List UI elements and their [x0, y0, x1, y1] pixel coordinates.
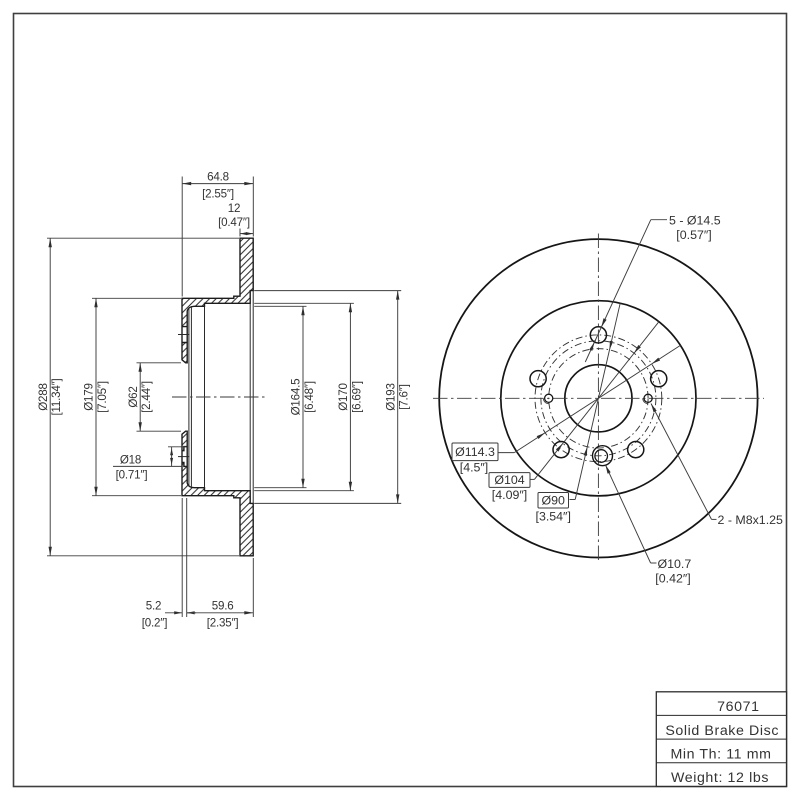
dimension Ø170 [6.69"] drum diameter: extension lines — [254, 302, 354, 304]
front view: hat outline circle Ø179 — [501, 301, 696, 496]
dimension Ø193 [7.6"] groove diameter: extension lines — [254, 290, 401, 292]
leader line: &#216;90 circle — [575, 303, 620, 499]
section view: hatched upper half (friction ring + hat wall + flange) — [182, 238, 253, 363]
section view: hatched lower half (friction ring + hat wall + flange with Ø18 hole notch) — [182, 431, 253, 556]
front view: horizontal centerline — [433, 397, 764, 399]
svg-text:Ø114.3: Ø114.3 — [455, 445, 495, 459]
dimension Ø193: dimension line with arrows — [397, 291, 399, 504]
svg-text:[3.54″]: [3.54″] — [536, 510, 571, 524]
dimension Ø164.5 [6.48"] drum inner diameter: extension lines — [254, 305, 306, 307]
svg-text:76071: 76071 — [717, 699, 759, 715]
front view: lug bolt hole Ø14.5 #1 — [590, 327, 606, 343]
svg-text:[6.48″]: [6.48″] — [303, 381, 316, 413]
leader line: &#216;114.3 bolt circle — [514, 345, 680, 452]
boxed label Ø90 [3.54"] — [538, 493, 569, 509]
leader tick: Ø114.3 — [498, 452, 514, 454]
leader: Ø10.7 [0.42"] hole — [651, 562, 657, 564]
svg-text:[0.42″]: [0.42″] — [655, 571, 690, 585]
dimension Ø62 [2.44"] center bore: extension lines — [137, 362, 182, 364]
svg-text:Ø62: Ø62 — [127, 386, 140, 407]
dimension Ø288: dimension line with arrows — [49, 238, 51, 556]
leader: 2 - M8x1.25 threaded holes — [651, 404, 712, 520]
front view: lug bolt hole Ø14.5 #2 — [651, 371, 667, 387]
dimension Ø18: dimension line with arrows — [171, 447, 173, 467]
svg-text:64.8: 64.8 — [207, 170, 229, 183]
svg-text:Ø193: Ø193 — [384, 383, 397, 411]
svg-text:[7.05″]: [7.05″] — [96, 381, 109, 413]
front view: outer circle Ø288 — [439, 239, 757, 557]
dimension Ø179: dimension line with arrows — [95, 298, 97, 495]
leader line: &#216;104 circle — [534, 322, 659, 480]
svg-text:Solid Brake Disc: Solid Brake Disc — [665, 723, 779, 739]
dimension 64.8: dimension line with arrows — [182, 183, 253, 185]
front view: M8x1.25 threaded hole #1 — [644, 394, 652, 402]
svg-text:2 - M8x1.25: 2 - M8x1.25 — [718, 513, 784, 527]
dimension 64.8 [2.55"] overall height: extension lines — [181, 177, 183, 297]
svg-text:Ø18: Ø18 — [120, 453, 141, 466]
section: centerline (axis) — [172, 396, 268, 398]
leader tick: Ø104 — [530, 478, 535, 480]
dimension 59.6 [2.35"] hat depth: extension line and dimension line — [252, 558, 254, 617]
dimension 12: dimension line with arrows — [240, 233, 253, 235]
dimension Ø170: dimension line with arrows — [349, 303, 351, 490]
dimension 5.2: arrows outside — [165, 612, 182, 614]
svg-text:Ø10.7: Ø10.7 — [658, 557, 692, 571]
svg-text:[0.47″]: [0.47″] — [218, 216, 250, 229]
leader: 5 - Ø14.5 [0.57"] lug holes — [651, 219, 667, 221]
front view: circle Ø104 (dash-dot) — [541, 341, 656, 456]
svg-text:59.6: 59.6 — [212, 600, 234, 613]
svg-text:[2.44″]: [2.44″] — [140, 381, 153, 413]
section: lug hole centerline tick (top) — [178, 334, 190, 336]
svg-text:[2.35″]: [2.35″] — [207, 617, 239, 630]
svg-text:Ø179: Ø179 — [83, 383, 96, 411]
section: drum interior visible edge circles (edge-on) — [188, 308, 190, 487]
front view: circle Ø90 (dash-dot) — [549, 349, 648, 448]
svg-text:Ø104: Ø104 — [494, 473, 524, 487]
front view: lug bolt hole Ø14.5 #4 — [553, 442, 569, 458]
svg-text:Ø170: Ø170 — [337, 383, 350, 411]
dimension 5.2 [0.2"] flange thickness: extension lines — [181, 498, 183, 617]
svg-text:[0.57″]: [0.57″] — [676, 228, 711, 242]
front view: vertical centerline — [597, 234, 599, 564]
svg-text:[0.2″]: [0.2″] — [142, 617, 167, 630]
front view: M8x1.25 threaded hole #2 — [545, 394, 553, 402]
dimension 12 [0.47"] disc thickness: extension line — [239, 229, 241, 237]
svg-text:12: 12 — [228, 202, 241, 215]
svg-text:5.2: 5.2 — [146, 600, 162, 613]
svg-text:[11.34″]: [11.34″] — [50, 378, 63, 415]
svg-text:[2.55″]: [2.55″] — [202, 187, 234, 200]
svg-text:[4.09″]: [4.09″] — [492, 488, 527, 502]
svg-text:Ø164.5: Ø164.5 — [290, 379, 303, 416]
svg-text:Min Th: 11 mm: Min Th: 11 mm — [670, 746, 771, 762]
front view: lug bolt hole Ø14.5 #3 — [628, 442, 644, 458]
svg-text:[6.69″]: [6.69″] — [350, 381, 363, 413]
front view: lug bolt hole Ø14.5 #5 — [530, 371, 546, 387]
svg-text:Weight: 12 lbs: Weight: 12 lbs — [671, 770, 769, 786]
svg-text:[0.71″]: [0.71″] — [116, 468, 148, 481]
svg-text:5 - Ø14.5: 5 - Ø14.5 — [669, 213, 721, 227]
dimension Ø288 [11.34"] outer diameter: extension lines — [47, 237, 239, 239]
dimension Ø164.5: dimension line with arrows — [302, 306, 304, 487]
front view: bolt circle Ø114.3 (dash-dot) — [535, 335, 662, 462]
dimension Ø18 [0.71"] mounting hole: extension lines — [168, 446, 187, 448]
dimension Ø179 [7.05"] hat outer diameter: extension lines — [92, 297, 181, 299]
boxed label Ø104 [4.09"] — [489, 473, 530, 488]
title table — [656, 692, 786, 787]
leader tick: Ø90 — [570, 499, 576, 501]
svg-text:Ø288: Ø288 — [37, 383, 50, 411]
section: Ø10.7/Ø18 hole centerline tick (bottom) — [178, 456, 190, 458]
svg-text:Ø90: Ø90 — [541, 493, 565, 507]
svg-text:[7.6″]: [7.6″] — [398, 384, 411, 409]
front view: Ø10.7 hole with Ø18 counterbore — [593, 446, 613, 466]
boxed label Ø114.3 [4.5"] — [452, 443, 498, 461]
svg-text:[4.5″]: [4.5″] — [460, 461, 489, 475]
dimension Ø62: dimension line with arrows — [139, 363, 141, 431]
front view: center bore circle Ø62 — [565, 365, 632, 432]
